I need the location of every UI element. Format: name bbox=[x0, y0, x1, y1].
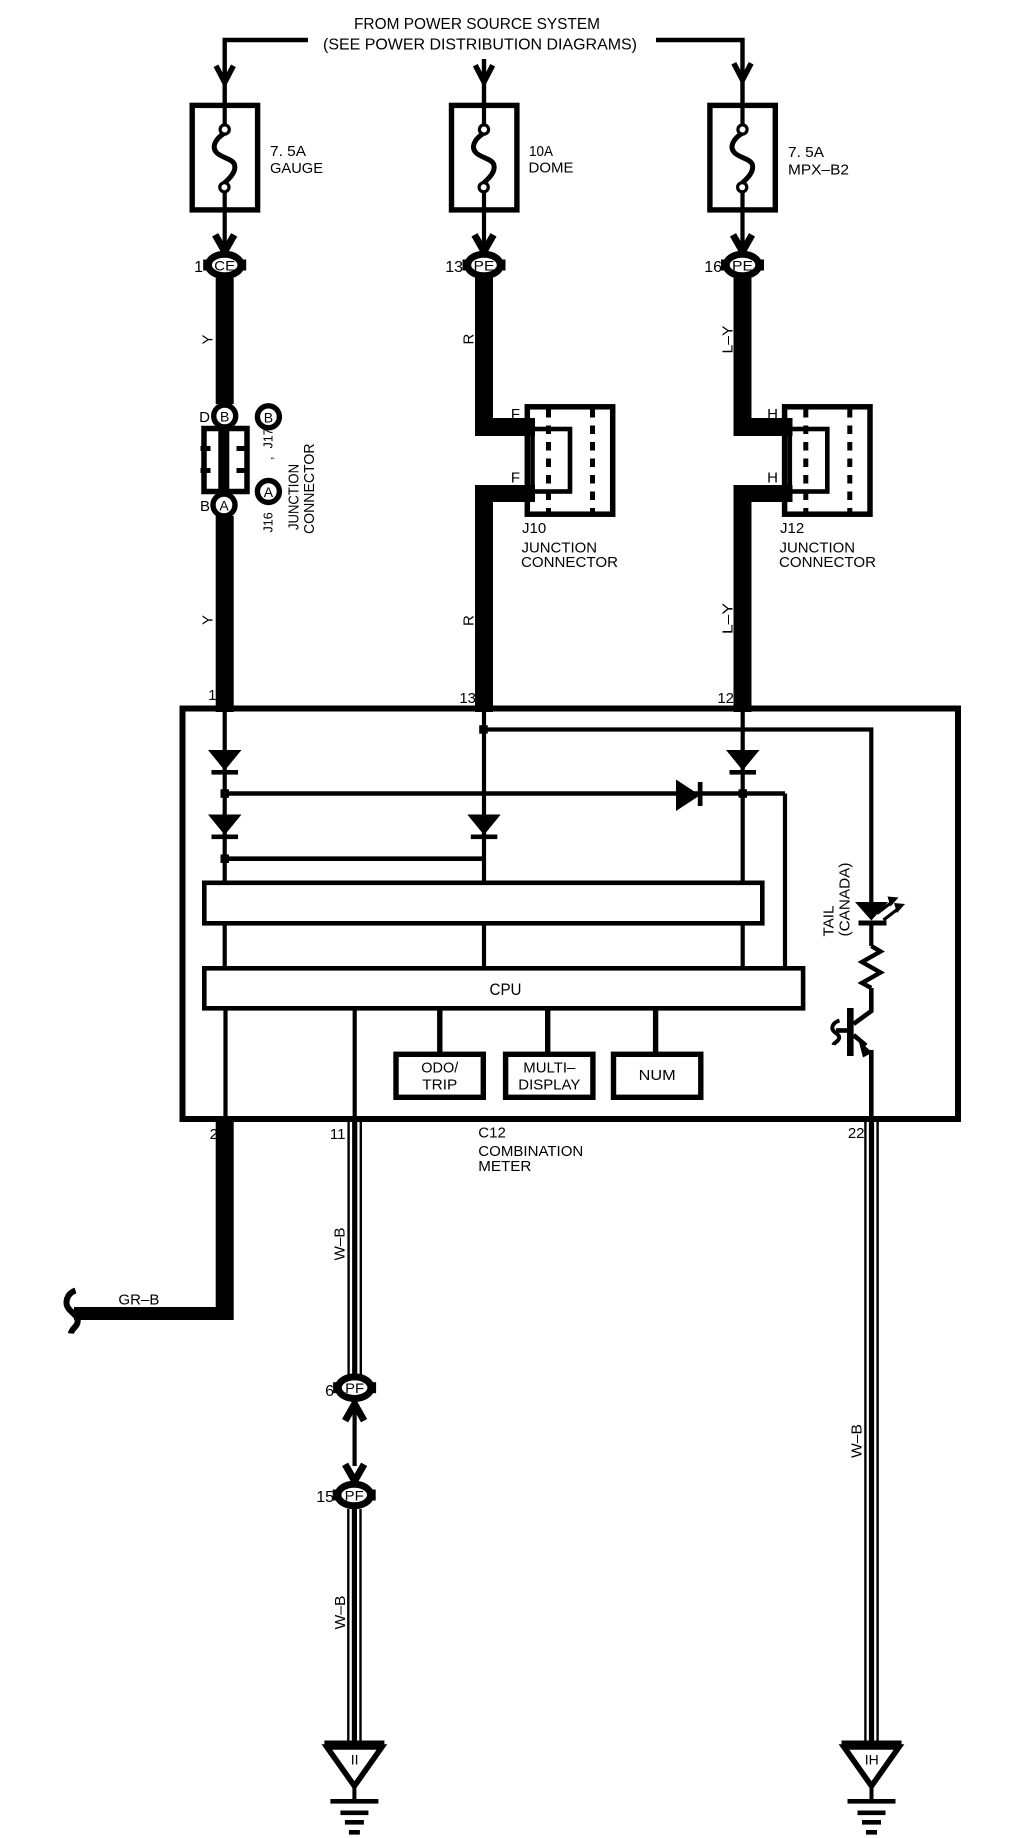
svg-text:(SEE POWER DISTRIBUTION DIAGRA: (SEE POWER DISTRIBUTION DIAGRAMS) bbox=[323, 37, 637, 54]
wire W-B: connector PF 15 to ground II (triple) bbox=[348, 1509, 360, 1741]
wire: LED to resistor bbox=[869, 926, 873, 947]
svg-text:TAIL: TAIL bbox=[821, 906, 838, 937]
wire: fuse F1 to connector CE bbox=[223, 213, 227, 250]
svg-text:B: B bbox=[264, 409, 273, 425]
svg-text:GAUGE: GAUGE bbox=[270, 160, 323, 177]
wire: horizontal diode row upper bbox=[225, 791, 785, 796]
wire: resistor to transistor collector bbox=[854, 988, 872, 1024]
wire L-Y: J12 to combination meter pin 12 (thick) bbox=[734, 485, 793, 502]
node: junction dot middle top bbox=[479, 725, 488, 734]
wire: left feed from power source bbox=[225, 40, 308, 103]
svg-text:MPX–B2: MPX–B2 bbox=[788, 162, 849, 179]
svg-text:MULTI–: MULTI– bbox=[523, 1060, 576, 1077]
svg-text:CE: CE bbox=[214, 258, 235, 274]
svg-text:Y: Y bbox=[200, 334, 217, 344]
svg-text:22: 22 bbox=[848, 1125, 865, 1142]
wire R: connector PE to J10 (thick) bbox=[475, 278, 493, 436]
svg-text:W–B: W–B bbox=[332, 1596, 349, 1630]
wire: pin 1 internal vertical bbox=[223, 712, 227, 881]
wire Y: connector CE to junction connector (thick) bbox=[216, 278, 234, 404]
diode D4 bbox=[726, 750, 760, 775]
diode D2 bbox=[208, 815, 242, 840]
svg-text:11: 11 bbox=[330, 1126, 346, 1143]
junction connector J12 body bbox=[785, 407, 870, 514]
fuse F3 7.5A MPX-B2 bbox=[710, 103, 775, 213]
connector PE pin 16 bbox=[721, 254, 764, 276]
connector PE pin 13 bbox=[463, 254, 506, 276]
fuse F2 10A DOME bbox=[452, 103, 517, 213]
svg-text:13: 13 bbox=[459, 690, 476, 707]
svg-text:13: 13 bbox=[445, 259, 463, 276]
wire: pin 12 internal vertical bbox=[741, 712, 745, 881]
svg-text:7. 5A: 7. 5A bbox=[788, 144, 824, 161]
svg-text:TRIP: TRIP bbox=[422, 1077, 457, 1094]
node: junction dot left upper bbox=[221, 789, 230, 798]
svg-text:6: 6 bbox=[325, 1383, 334, 1400]
wire: horizontal diode row lower bbox=[225, 856, 484, 861]
ground II bbox=[324, 1741, 384, 1835]
block: NUM bbox=[614, 1054, 701, 1097]
connector CE pin 1 bbox=[203, 254, 246, 276]
block: internal bus bar bbox=[204, 883, 762, 924]
svg-text:CONNECTOR: CONNECTOR bbox=[301, 443, 318, 534]
svg-text:W–B: W–B bbox=[332, 1228, 349, 1261]
wire W-B: pin 22 to ground IH (triple) bbox=[865, 1122, 877, 1741]
svg-text:DOME: DOME bbox=[529, 160, 574, 177]
diode D5 (horizontal) bbox=[676, 780, 703, 812]
svg-text:NUM: NUM bbox=[639, 1067, 676, 1084]
arrow up into connector PF 6 bbox=[345, 1404, 364, 1421]
junction connector J16/J17 body bbox=[201, 426, 249, 494]
connector PF pin 15 bbox=[333, 1484, 376, 1506]
svg-text:15: 15 bbox=[316, 1489, 334, 1506]
svg-text:A: A bbox=[264, 484, 274, 500]
svg-text:1: 1 bbox=[208, 687, 216, 704]
svg-text:METER: METER bbox=[478, 1158, 531, 1175]
arrow into fuse MPX-B2 bbox=[734, 63, 751, 80]
wire: stub CPU to MULTI-DISPLAY bbox=[545, 1010, 550, 1052]
junction connector J16/J17 pin A circle bbox=[213, 494, 235, 516]
svg-text:H: H bbox=[767, 470, 778, 487]
svg-text:R: R bbox=[461, 615, 478, 626]
svg-text:CONNECTOR: CONNECTOR bbox=[521, 554, 618, 571]
svg-text:R: R bbox=[461, 334, 478, 345]
svg-text:H: H bbox=[767, 406, 778, 423]
diode D1 bbox=[208, 750, 242, 775]
svg-text:B: B bbox=[200, 498, 210, 515]
svg-text:GR–B: GR–B bbox=[118, 1292, 159, 1309]
svg-text:1: 1 bbox=[194, 259, 203, 276]
svg-text:L–Y: L–Y bbox=[720, 326, 737, 354]
svg-text:J12: J12 bbox=[780, 520, 804, 537]
svg-text:Y: Y bbox=[200, 615, 217, 625]
svg-text:PF: PF bbox=[345, 1380, 364, 1396]
node: junction dot left lower bbox=[221, 855, 230, 864]
wire: right feed from power source bbox=[656, 40, 743, 103]
wire: pin 13 internal vertical bbox=[482, 712, 486, 881]
svg-text:,: , bbox=[262, 457, 276, 460]
svg-text:CPU: CPU bbox=[490, 980, 522, 999]
wire: fuse F3 to connector PE 16 bbox=[740, 213, 744, 250]
wire: stub CPU to ODO/TRIP bbox=[437, 1010, 442, 1052]
arrow into connector CE bbox=[215, 235, 234, 252]
transistor Q1 bbox=[832, 1008, 872, 1058]
wire: pin 2 internal vertical bbox=[223, 1010, 227, 1119]
wire: between PF connectors bbox=[353, 1402, 357, 1466]
resistor R1 bbox=[862, 946, 881, 988]
svg-text:PE: PE bbox=[474, 258, 495, 274]
wire: diode bypass vertical to CPU bbox=[783, 794, 787, 967]
svg-text:7. 5A: 7. 5A bbox=[270, 143, 306, 160]
svg-text:F: F bbox=[511, 406, 520, 423]
arrow into fuse DOME bbox=[475, 65, 492, 82]
ground IH bbox=[842, 1741, 902, 1835]
svg-text:16: 16 bbox=[704, 259, 722, 276]
arrow down into connector PF 15 bbox=[345, 1464, 364, 1481]
svg-text:PF: PF bbox=[345, 1488, 364, 1504]
svg-text:J17: J17 bbox=[262, 428, 276, 448]
block: MULTI-DISPLAY bbox=[506, 1054, 593, 1097]
wire R: J10 to combination meter pin 13 (thick) bbox=[475, 485, 535, 502]
svg-text:II: II bbox=[351, 1752, 359, 1768]
label J16 (A) bbox=[257, 481, 279, 503]
svg-text:ODO/: ODO/ bbox=[421, 1060, 459, 1077]
wire: middle feed from power source bbox=[482, 59, 486, 103]
junction connector J10 body bbox=[527, 407, 612, 514]
label J17 (B) bbox=[257, 406, 279, 428]
svg-text:J16: J16 bbox=[262, 512, 276, 532]
svg-text:12: 12 bbox=[717, 690, 734, 707]
svg-text:A: A bbox=[219, 498, 229, 514]
svg-text:JUNCTION: JUNCTION bbox=[286, 464, 303, 530]
wire: bus links rect1 to CPU bbox=[223, 925, 227, 966]
wire: horizontal to TAIL lamp bbox=[484, 730, 871, 903]
fuse F1 7.5A GAUGE bbox=[192, 103, 257, 213]
svg-text:L–Y: L–Y bbox=[720, 603, 737, 634]
arrow into connector PE 16 bbox=[733, 235, 752, 252]
wire GR-B: pin 2 to off-page (thick) bbox=[216, 1122, 234, 1320]
wire W-B: pin 11 to connector PF 6 (triple) bbox=[349, 1122, 361, 1375]
svg-text:C12: C12 bbox=[478, 1125, 506, 1142]
block: ODO/TRIP bbox=[396, 1054, 483, 1097]
wire: fuse F2 to connector PE bbox=[482, 213, 486, 250]
svg-text:PE: PE bbox=[732, 258, 753, 274]
svg-text:DISPLAY: DISPLAY bbox=[518, 1077, 580, 1094]
junction connector J16/J17 pin B circle bbox=[214, 405, 236, 427]
LED TAIL (CANADA) bbox=[855, 897, 905, 926]
svg-text:W–B: W–B bbox=[849, 1424, 866, 1458]
diode D3 bbox=[467, 815, 500, 840]
svg-text:F: F bbox=[511, 470, 520, 487]
arrow into fuse GAUGE bbox=[216, 66, 233, 83]
svg-text:J10: J10 bbox=[522, 520, 546, 537]
svg-text:10A: 10A bbox=[529, 143, 553, 160]
svg-text:D: D bbox=[199, 409, 210, 426]
svg-text:IH: IH bbox=[865, 1752, 879, 1768]
node: junction dot right bbox=[739, 789, 748, 798]
wire Y: junction connector to combination meter pin 1 (thick) bbox=[216, 516, 234, 712]
connector PF pin 6 bbox=[333, 1377, 376, 1399]
wire L-Y: connector PE to J12 (thick) bbox=[734, 278, 752, 436]
wire: pin 11 internal vertical bbox=[353, 1010, 357, 1119]
wire: transistor emitter to pin 22 bbox=[869, 1050, 874, 1119]
arrow into connector PE 13 bbox=[475, 235, 494, 252]
svg-text:(CANADA): (CANADA) bbox=[837, 863, 854, 937]
wire: stub CPU to NUM bbox=[653, 1010, 658, 1052]
svg-text:B: B bbox=[220, 409, 229, 425]
combination meter C12 box bbox=[183, 709, 959, 1120]
svg-text:CONNECTOR: CONNECTOR bbox=[779, 554, 876, 571]
svg-text:FROM POWER SOURCE SYSTEM: FROM POWER SOURCE SYSTEM bbox=[354, 16, 600, 33]
off-page hook (GR-B) bbox=[67, 1291, 78, 1334]
block: CPU bbox=[204, 968, 803, 1008]
